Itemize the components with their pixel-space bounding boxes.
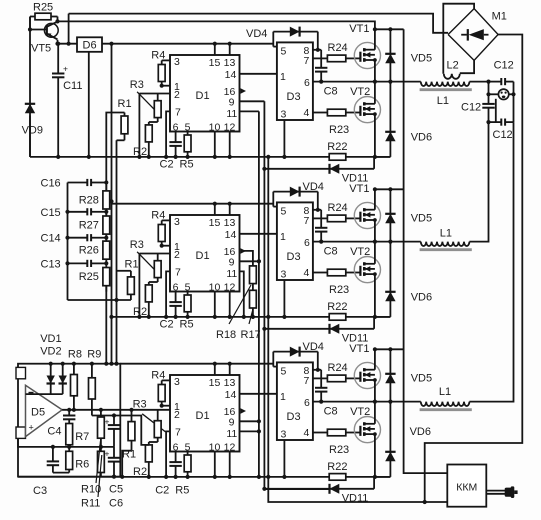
node R7/R6 junction: [67, 445, 71, 449]
resistor R3 (stage 3): [154, 410, 161, 442]
resistor R3 (stage 2): [154, 254, 161, 283]
diode VD6 (stage 1): [385, 82, 395, 157]
svg-text:3: 3: [281, 269, 287, 281]
node pin12 on ground rail (stage 1): [228, 155, 232, 159]
wire pin5 stub (stage 2): [273, 206, 277, 208]
diode VD2: [59, 364, 67, 394]
svg-text:9: 9: [229, 97, 235, 109]
op-amp D5: [26, 385, 63, 436]
core bar of L1 (stage 1): [420, 88, 472, 91]
wire pin10 stub (stage 3): [214, 452, 216, 477]
wire supply rail (stage 2): [112, 203, 274, 205]
node C5 top: [112, 413, 116, 417]
resistor R24 (stage 1): [313, 55, 360, 62]
svg-text:VD5: VD5: [411, 53, 432, 65]
svg-text:VT1: VT1: [349, 343, 369, 355]
wire lamp bottom drop: [495, 99, 497, 122]
svg-text:R25: R25: [79, 271, 99, 283]
diode VD11 (stage 3): [264, 484, 374, 494]
wire VD6 bottom corner (stage 1): [375, 156, 391, 158]
diode VD5 (stage 3): [385, 349, 395, 401]
svg-text:15: 15: [209, 377, 221, 389]
svg-text:R24: R24: [328, 362, 348, 374]
wire L1 right up to lamp net (stage 3): [469, 122, 513, 402]
svg-text:D1: D1: [196, 250, 210, 262]
svg-text:L1: L1: [439, 386, 451, 398]
wire VT1 source (stage 1): [374, 60, 376, 82]
svg-text:R18: R18: [216, 329, 236, 341]
wire plus input path: [18, 438, 114, 447]
svg-text:11: 11: [226, 268, 237, 280]
node C2 on ground rail (stage 3): [174, 475, 178, 479]
svg-text:2: 2: [174, 249, 180, 261]
node ladder bottom / R1 bus: [114, 298, 118, 302]
transistor VT2 (stage 2): [354, 257, 380, 283]
node R8 bottom: [72, 408, 76, 412]
IC D6: [77, 37, 102, 52]
resistor R5 (stage 1): [184, 132, 191, 157]
node pin9 on bus (stage 2): [257, 259, 261, 263]
svg-text:C8: C8: [324, 246, 338, 258]
transistor VT2 (stage 1): [354, 97, 380, 123]
svg-text:VT1: VT1: [349, 23, 369, 35]
svg-text:R22: R22: [327, 141, 347, 153]
node VT1 source on output rail (stage 1): [373, 80, 377, 84]
wire VT2 source (stage 3): [374, 434, 376, 477]
node R2 on ground rail (stage 2): [147, 315, 151, 319]
inductor L1 (stage 1): [421, 82, 470, 86]
wire lamp net right vertical: [513, 82, 515, 123]
capacitor C12 mid: [482, 94, 494, 122]
capacitor C12 top: [489, 78, 514, 85]
diode VD4 (stage 3): [273, 347, 318, 357]
svg-text:C12: C12: [494, 60, 514, 72]
capacitor C5: [105, 416, 121, 447]
wire M1 bottom vertex to L2: [460, 60, 474, 73]
IC D3 (stage 3): [277, 362, 313, 440]
diode VD1: [47, 364, 55, 394]
resistor R2 (stage 1): [145, 122, 152, 157]
wire left edge vertical: [29, 17, 31, 104]
svg-text:R26: R26: [79, 245, 99, 257]
svg-text:+: +: [29, 423, 34, 433]
capacitor C3: [47, 447, 59, 473]
svg-text:C16: C16: [41, 178, 61, 190]
node rail A on D6 rail: [67, 42, 71, 46]
wire pin8 (stage 1): [313, 49, 321, 51]
svg-text:4: 4: [304, 427, 310, 439]
resistor R10: [98, 410, 105, 447]
node pin15 on rail (stage 1): [213, 42, 217, 46]
wire pin14 to D3 pin1 (stage 2): [240, 233, 277, 235]
node C11 top: [56, 42, 60, 46]
wire chain bus lower: [105, 286, 107, 364]
svg-text:R17: R17: [241, 329, 261, 341]
wire VT2 drain (stage 2): [374, 242, 376, 264]
svg-text:L2: L2: [447, 60, 459, 72]
wire ground rail left (stage 2): [112, 316, 330, 318]
svg-text:R9: R9: [87, 349, 101, 361]
svg-text:+: +: [105, 449, 110, 459]
node VD5 bottom (stage 1): [388, 80, 392, 84]
wire ground rail corner: [29, 116, 31, 157]
wire rail A drop to D6 rail: [68, 14, 70, 44]
node C13 left: [65, 261, 69, 265]
resistor R24 (stage 3): [313, 375, 360, 382]
node VD5 bottom (stage 2): [388, 240, 392, 244]
svg-text:L1: L1: [437, 95, 449, 107]
node V3 bus on ground rail (stage 3): [266, 475, 270, 479]
wire VT1 drain (stage 1): [374, 29, 376, 49]
wire VD4 node (stage 1): [272, 32, 274, 47]
wire pin16 to R18 (stage 2): [243, 251, 253, 266]
node pin15 on rail (stage 3): [213, 362, 217, 366]
svg-text:VT5: VT5: [31, 43, 51, 55]
node VD11 bus tap (stage 2): [262, 327, 266, 331]
resistor R7: [66, 424, 73, 447]
wire pin10 stub (stage 1): [214, 132, 216, 157]
wire pin6 output rail (stage 2): [313, 241, 421, 243]
transistor VT1 (stage 1): [354, 42, 380, 68]
svg-text:4: 4: [304, 267, 310, 279]
wire pin1 (stage 1): [162, 85, 170, 87]
resistor R22 body (stage 2): [329, 314, 346, 321]
transistor VT5: [44, 22, 58, 40]
wire R3-R2 (stage 2): [149, 281, 158, 283]
resistor R6: [66, 447, 73, 473]
svg-text:14: 14: [225, 389, 237, 401]
wire R1 bottom (stage 1): [117, 139, 125, 141]
wire VD4 to pin8 (stage 3): [317, 352, 319, 370]
diode VD4 (stage 2): [273, 187, 318, 197]
node C12 bottom left: [486, 120, 490, 124]
wire R25 left down: [29, 17, 31, 30]
node VD5 top (stage 2): [388, 187, 392, 191]
svg-text:13: 13: [224, 57, 236, 69]
node VT1 drain (stage 1): [373, 27, 377, 31]
svg-text:R25: R25: [33, 2, 53, 14]
node L1 right (stage 1): [486, 80, 490, 84]
capacitor C2 (stage 3): [169, 452, 181, 477]
diode VD5 (stage 2): [385, 189, 395, 241]
svg-text:R22: R22: [327, 461, 347, 473]
wire drain node to bus (stage 2): [375, 188, 404, 190]
capacitor C8 (stage 2): [315, 210, 327, 242]
wire VT2 source (stage 2): [374, 274, 376, 317]
wire L1 right up to lamp net (stage 2): [469, 122, 488, 242]
node emitter/D6 rail: [55, 42, 59, 46]
svg-text:C12: C12: [461, 102, 481, 114]
IC D1 (stage 2): [170, 215, 240, 292]
node R4/pin1 (stage 2): [160, 244, 164, 248]
bridge rectifier M1: [448, 9, 498, 61]
trimmer arrow R3 (stage 2): [137, 252, 155, 271]
svg-text:1: 1: [280, 71, 286, 83]
wire M1 right to right bus: [425, 35, 523, 503]
svg-text:C2: C2: [160, 159, 174, 171]
capacitor C13: [68, 260, 107, 267]
wire drain node to bus (stage 1): [375, 28, 404, 30]
node VD1 top: [49, 362, 53, 366]
leader line R11: [98, 455, 102, 497]
IC KKM (PFC block): [447, 465, 486, 507]
wire KKM to plug lower: [486, 493, 505, 495]
svg-text:C3: C3: [33, 485, 47, 497]
wire pin2 (stage 1): [139, 93, 170, 95]
wire pin9 (stage 1): [240, 100, 265, 102]
node pin3 on ground rail (stage 3): [282, 475, 286, 479]
resistor R22 body (stage 1): [329, 154, 346, 161]
svg-text:ККМ: ККМ: [456, 482, 477, 494]
svg-text:L1: L1: [440, 228, 452, 240]
node pin7 on ground rail (stage 2): [164, 315, 168, 319]
wire VD4 node (stage 2): [272, 192, 274, 207]
wire L1 right to lamp net (stage 1): [469, 81, 488, 83]
resistor R2 (stage 3): [145, 442, 152, 477]
node pin8/VD4 (stage 2): [316, 208, 320, 212]
resistor R27 ladder: [103, 210, 110, 240]
node C14 right: [104, 236, 108, 240]
leader line R10: [96, 441, 101, 483]
svg-text:7: 7: [175, 267, 181, 279]
svg-text:C14: C14: [41, 233, 61, 245]
svg-text:4: 4: [304, 107, 310, 119]
svg-text:3: 3: [281, 429, 287, 441]
node VT1 source on output rail (stage 3): [373, 400, 377, 404]
node VT2 source on ground rail (stage 3): [373, 475, 377, 479]
wire D5 output to pin2: [62, 409, 170, 411]
wire VD1-VD2 bottoms to inverting input: [26, 393, 63, 395]
svg-text:3: 3: [174, 376, 180, 388]
svg-text:C4: C4: [47, 425, 61, 437]
inductor L1 (stage 2): [421, 242, 470, 246]
wire bus R1 link: [116, 140, 118, 363]
resistor R1 (stage 3): [128, 411, 135, 451]
wire rail A to bridge M1: [69, 14, 449, 33]
wire VT1 source (stage 3): [374, 380, 376, 402]
wire lamp net left vertical: [488, 82, 490, 95]
wire VT1 drain (stage 2): [374, 189, 376, 209]
wire pin15 stub (stage 1): [214, 44, 216, 55]
wire D6 rail right: [102, 43, 273, 45]
node C8 on output rail (stage 3): [319, 400, 323, 404]
svg-text:VD5: VD5: [411, 373, 432, 385]
node pin2 drop on ground rail (stage 1): [137, 155, 141, 159]
node V1 on stage3 ground rail: [257, 475, 261, 479]
diode VD11 (stage 1): [264, 164, 374, 174]
capacitor C2 (stage 1): [169, 132, 181, 157]
node bus on stage2 rail: [109, 199, 113, 203]
wire C3-R6 bottoms: [53, 472, 69, 474]
svg-text:3: 3: [174, 56, 180, 68]
node C8 on output rail (stage 1): [319, 80, 323, 84]
resistor R1 (stage 2): [128, 271, 135, 300]
node C13 right: [104, 261, 108, 265]
wire VT2 source (stage 1): [374, 114, 376, 157]
node VD5 top (stage 1): [388, 27, 392, 31]
svg-text:7: 7: [175, 427, 181, 439]
svg-text:C12: C12: [493, 129, 513, 141]
node R9 top: [90, 362, 94, 366]
wire pin13 stub (stage 3): [229, 364, 231, 375]
wire R1 bottom (stage 3): [122, 451, 131, 477]
wire ladder left vertical: [67, 183, 69, 301]
resistor R26 ladder: [103, 235, 110, 265]
node chain bus on stage3 rail: [104, 362, 108, 366]
svg-text:VD5: VD5: [411, 213, 432, 225]
resistor R4 (stage 1): [158, 60, 165, 85]
svg-text:2: 2: [174, 409, 180, 421]
node R10 top: [99, 408, 103, 412]
node pin3 on ground rail (stage 2): [282, 315, 286, 319]
node pin8/VD4 (stage 1): [316, 48, 320, 52]
wire pin3 (stage 1): [162, 59, 170, 61]
pin 16 arrow of D1 (stage 2): [241, 248, 247, 253]
svg-text:R28: R28: [79, 194, 99, 206]
svg-text:7: 7: [304, 375, 310, 387]
resistor R2 (stage 2): [145, 282, 152, 317]
wire drain node to bus (stage 3): [375, 348, 404, 350]
svg-text:7: 7: [304, 55, 310, 67]
IC D1 (stage 3): [170, 375, 240, 452]
resistor R18: [250, 266, 257, 290]
node pin10 on ground rail (stage 3): [213, 475, 217, 479]
wire pin10 stub (stage 2): [214, 292, 216, 317]
wire VT5 emitter to D6 rail: [57, 40, 59, 44]
node R1 bottom on ground rail (stage 3): [120, 475, 124, 479]
svg-text:R23: R23: [329, 284, 349, 296]
node pin13 on rail (stage 1): [228, 42, 232, 46]
svg-text:1: 1: [280, 391, 286, 403]
svg-text:C8: C8: [324, 86, 338, 98]
capacitor C4: [63, 410, 75, 424]
wire VD4 to pin8 (stage 2): [317, 192, 319, 210]
capacitor C14: [68, 234, 107, 241]
node VT2 source on ground rail (stage 2): [373, 315, 377, 319]
wire pin9 (stage 3): [240, 420, 259, 422]
wire ground rail right (stage 2): [346, 316, 391, 318]
svg-text:14: 14: [225, 229, 237, 241]
svg-text:9: 9: [229, 257, 235, 269]
wire R9 lower link: [92, 416, 149, 445]
wire R3-R2 (stage 1): [149, 121, 158, 123]
wire VT2 drain (stage 3): [374, 402, 376, 424]
node VT2 source on ground rail (stage 1): [373, 155, 377, 159]
capacitor C8 (stage 1): [315, 50, 327, 82]
wire M1 top box: [443, 4, 474, 74]
wire pin7 (stage 2): [166, 271, 170, 317]
wire pin2 (stage 2): [139, 253, 170, 255]
resistor R25 ladder: [103, 262, 110, 292]
wire VD4 node (stage 3): [272, 352, 274, 367]
wire pin11 (stage 1): [240, 110, 259, 112]
wire lamp left lead: [489, 93, 499, 95]
transistor VT2 (stage 3): [354, 417, 380, 443]
diode VD6 (stage 3): [385, 402, 395, 477]
wire KKM to plug upper: [486, 490, 505, 492]
node pin3 on ground rail (stage 1): [282, 155, 286, 159]
wire pin9 (stage 2): [240, 260, 259, 262]
svg-text:15: 15: [209, 57, 221, 69]
node C16 right: [104, 180, 108, 184]
svg-text:15: 15: [209, 217, 221, 229]
node C2 on ground rail (stage 1): [174, 155, 178, 159]
wire ground rail right (stage 3): [346, 476, 391, 478]
svg-text:+: +: [105, 417, 110, 427]
wire ground rail left (stage 3): [18, 476, 329, 478]
wire pin14 to D3 pin1 (stage 1): [240, 73, 277, 75]
node R10/R11 junction: [99, 445, 103, 449]
wire pin1 (stage 3): [162, 405, 170, 407]
node VT1 drain (stage 2): [373, 187, 377, 191]
resistor R4 (stage 3): [158, 380, 165, 405]
svg-text:C6: C6: [109, 498, 123, 510]
node C15 left: [65, 210, 69, 214]
node pin9 on bus (stage 3): [257, 419, 261, 423]
wire pin12 stub (stage 1): [229, 132, 231, 157]
module box around D5: [18, 364, 120, 477]
node pin12 on ground rail (stage 3): [228, 475, 232, 479]
svg-text:6: 6: [304, 77, 310, 89]
svg-text:R1: R1: [125, 258, 139, 270]
wire pin13 stub (stage 2): [229, 204, 231, 215]
node collector/rail B: [55, 19, 59, 23]
svg-text:R6: R6: [75, 459, 89, 471]
svg-text:R23: R23: [329, 124, 349, 136]
svg-text:VD4: VD4: [303, 341, 324, 353]
svg-text:R4: R4: [151, 369, 165, 381]
wire pin7 (stage 1): [166, 111, 170, 156]
resistor R8: [71, 364, 78, 410]
node pin7 on ground rail (stage 1): [164, 155, 168, 159]
wire pin12 stub (stage 2): [229, 292, 231, 317]
plug X1: [505, 486, 518, 498]
svg-text:+: +: [63, 64, 68, 74]
node pin13 on rail (stage 3): [228, 362, 232, 366]
svg-text:R3: R3: [130, 79, 144, 91]
leader line R17: [249, 309, 253, 324]
IC D3 (stage 1): [277, 42, 313, 120]
wire pin5 stub (stage 1): [273, 46, 277, 48]
svg-text:R27: R27: [79, 220, 99, 232]
wire pin3 stub of D3 (stage 2): [283, 280, 285, 317]
resistor R11: [98, 447, 105, 477]
core bar of L1 (stage 2): [420, 248, 472, 251]
wire R25 right to collector node: [57, 17, 59, 22]
svg-text:D1: D1: [196, 410, 210, 422]
svg-text:R24: R24: [328, 42, 348, 54]
node VD5 top (stage 3): [388, 347, 392, 351]
node R2 on ground rail (stage 3): [147, 475, 151, 479]
node R2 on ground rail (stage 1): [147, 155, 151, 159]
node lamp right: [511, 92, 515, 96]
resistor R28 ladder: [103, 185, 110, 215]
svg-text:VD6: VD6: [411, 132, 432, 144]
node pin11 on ground rail (stage 2): [242, 315, 246, 319]
svg-text:C2: C2: [160, 319, 174, 331]
node R5 on ground rail (stage 1): [186, 155, 190, 159]
node C6 bottom: [112, 475, 116, 479]
svg-text:14: 14: [225, 69, 237, 81]
node C2 on ground rail (stage 2): [174, 315, 178, 319]
resistor R9: [89, 364, 96, 416]
wire bus D6 vertical: [111, 44, 113, 364]
node VD2 top: [61, 362, 65, 366]
node D6 bottom on ground rail: [87, 155, 91, 159]
node VT1 drain (stage 3): [373, 347, 377, 351]
wire D6 rail left: [58, 43, 78, 45]
core bar of L1 (stage 3): [420, 408, 472, 411]
